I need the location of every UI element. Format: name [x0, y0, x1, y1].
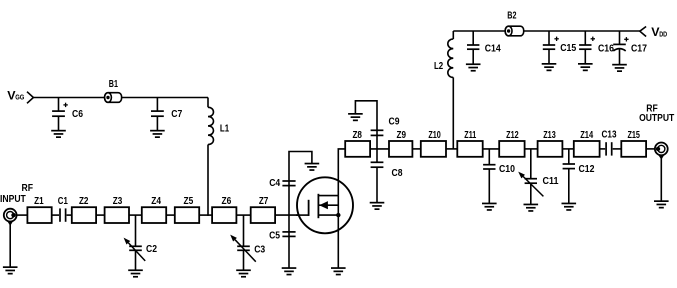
- ground RF output: [654, 201, 669, 208]
- svg-text:C17: C17: [631, 44, 647, 55]
- connector V_DD chevron: [640, 27, 646, 37]
- label Z8: [352, 130, 362, 141]
- variable capacitor C3: [230, 215, 256, 270]
- svg-text:C11: C11: [543, 176, 559, 187]
- svg-text:OUTPUT: OUTPUT: [639, 113, 674, 124]
- connector V_GG chevron: [27, 92, 33, 104]
- svg-text:C1: C1: [58, 196, 68, 207]
- svg-text:Z3: Z3: [113, 196, 123, 207]
- label C11: [543, 176, 559, 187]
- svg-text:Z13: Z13: [543, 130, 556, 141]
- MOSFET Q1 drain stub: [318, 195, 338, 197]
- MOSFET Q1 body circle: [297, 177, 353, 233]
- label C2: [146, 244, 157, 255]
- label B1: [109, 79, 118, 90]
- svg-text:C12: C12: [579, 164, 595, 175]
- svg-text:B2: B2: [507, 11, 516, 22]
- capacitor C5: [282, 215, 295, 268]
- ground C9: [348, 114, 363, 121]
- wire Z7 to gate: [275, 214, 309, 216]
- capacitor C12: [563, 149, 575, 204]
- wire Z3-Z4: [129, 214, 142, 216]
- wire Z11-Z12 node C10: [483, 148, 500, 150]
- transmission line Z1: [27, 207, 51, 223]
- inductor L1: [208, 98, 213, 216]
- ferrite bead B2: [505, 26, 524, 36]
- wire Z14-C13: [600, 148, 606, 150]
- transmission line Z4: [142, 207, 166, 223]
- svg-text:C10: C10: [499, 164, 515, 175]
- svg-text:Z9: Z9: [397, 130, 407, 141]
- label Z9: [397, 130, 407, 141]
- wire Z4-Z5: [166, 214, 175, 216]
- label Z10: [428, 130, 441, 141]
- wire Z15 to output connector: [646, 148, 655, 150]
- ground C7: [150, 131, 165, 138]
- wire Z6-Z7 node C3: [236, 214, 250, 216]
- transmission line Z11: [457, 141, 482, 157]
- label Z4: [151, 196, 161, 207]
- ground C17: [612, 65, 627, 72]
- wire C13-Z15: [613, 148, 622, 150]
- svg-text:C4: C4: [269, 178, 280, 189]
- transmission line Z5: [175, 207, 199, 223]
- svg-text:C13: C13: [602, 130, 617, 141]
- capacitor C8: [371, 162, 384, 202]
- label Z5: [184, 196, 194, 207]
- capacitor C4: [282, 181, 295, 215]
- ground C2: [128, 270, 143, 277]
- svg-text:GG: GG: [15, 93, 24, 102]
- transmission line Z12: [499, 141, 524, 157]
- wire input connector to Z1: [17, 214, 28, 216]
- wire C4 to ground: [289, 152, 312, 182]
- ground C6: [51, 131, 66, 138]
- wire C1-Z2: [67, 214, 72, 216]
- transmission line Z3: [105, 207, 129, 223]
- svg-text:C6: C6: [72, 109, 83, 120]
- ground C11: [524, 204, 539, 211]
- wire Z5-Z6 node L1: [199, 214, 212, 216]
- svg-text:L1: L1: [220, 124, 229, 135]
- capacitor C10: [483, 149, 495, 204]
- RF output connector: [655, 143, 668, 160]
- svg-text:DD: DD: [659, 29, 667, 38]
- svg-text:Z12: Z12: [506, 130, 519, 141]
- wire C9 to ground: [355, 101, 377, 131]
- wire Z8-Z9 node C9 C8: [370, 148, 389, 150]
- label C6: [72, 109, 83, 120]
- ground C15: [542, 64, 557, 71]
- MOSFET Q1 gate bar: [308, 200, 310, 216]
- capacitor C6: [52, 98, 68, 131]
- ground C5: [282, 268, 297, 275]
- net label V_GG: [7, 89, 24, 103]
- capacitor C15: [543, 31, 559, 64]
- svg-text:B1: B1: [109, 79, 118, 90]
- wire input connector ground lead: [9, 222, 11, 267]
- capacitor C1: [60, 208, 66, 221]
- svg-text:C16: C16: [598, 44, 614, 55]
- label C15: [560, 43, 576, 54]
- svg-text:Z2: Z2: [79, 196, 89, 207]
- label RF OUTPUT: [639, 104, 674, 124]
- label Z6: [222, 196, 232, 207]
- svg-text:Z14: Z14: [580, 130, 593, 141]
- wire output connector ground lead: [660, 156, 662, 202]
- label Z12: [506, 130, 519, 141]
- wire Z1-C1: [52, 214, 59, 216]
- label B2: [507, 11, 516, 22]
- svg-text:Z5: Z5: [184, 196, 194, 207]
- label C8: [392, 168, 403, 179]
- label Z7: [259, 196, 269, 207]
- variable capacitor C2: [124, 215, 146, 270]
- svg-text:C7: C7: [171, 109, 182, 120]
- svg-text:C9: C9: [389, 116, 400, 127]
- label C4: [269, 178, 280, 189]
- capacitor C9: [371, 130, 384, 162]
- transmission line Z7: [251, 207, 275, 223]
- capacitor C17 electrolytic: [613, 31, 628, 65]
- svg-text:C15: C15: [560, 43, 576, 54]
- ground C8: [370, 203, 385, 210]
- label C10: [499, 164, 515, 175]
- svg-text:Z7: Z7: [259, 196, 269, 207]
- ground C16: [578, 64, 593, 71]
- wire Z9-Z10: [412, 148, 420, 150]
- MOSFET Q1 gate lead: [296, 214, 309, 216]
- capacitor C14: [467, 31, 479, 64]
- label Z3: [113, 196, 123, 207]
- svg-text:Z8: Z8: [352, 130, 362, 141]
- net label V_DD: [651, 25, 667, 39]
- label L1: [220, 124, 229, 135]
- transmission line Z10: [421, 141, 446, 157]
- transmission line Z14: [574, 141, 600, 157]
- label Z14: [580, 130, 593, 141]
- ground C3: [236, 270, 251, 277]
- capacitor C7: [151, 98, 164, 131]
- wire drain to Z8: [338, 149, 345, 196]
- wire Z2-Z3: [96, 214, 105, 216]
- ground C10: [482, 203, 497, 210]
- svg-text:INPUT: INPUT: [0, 194, 26, 205]
- svg-text:C2: C2: [146, 244, 157, 255]
- label C3: [254, 245, 265, 256]
- ground C14: [466, 64, 481, 71]
- svg-text:Z6: Z6: [222, 196, 232, 207]
- ferrite bead B1: [105, 93, 122, 103]
- wire source to ground: [337, 215, 339, 268]
- ground C4: [305, 164, 320, 171]
- MOSFET Q1 source junction dot: [336, 213, 340, 217]
- label C12: [579, 164, 595, 175]
- MOSFET Q1 channel bar: [317, 194, 319, 218]
- ground Q1 source: [331, 268, 346, 275]
- label Z11: [464, 130, 476, 141]
- variable capacitor C11: [518, 149, 543, 205]
- ground RF input: [3, 267, 18, 274]
- svg-text:C8: C8: [392, 168, 403, 179]
- inductor L2: [448, 31, 453, 149]
- svg-text:Z1: Z1: [34, 196, 44, 207]
- transmission line Z6: [212, 207, 236, 223]
- svg-text:RF: RF: [22, 183, 34, 194]
- svg-text:C14: C14: [485, 44, 501, 55]
- label Z13: [543, 130, 556, 141]
- wire Z12-Z13 node C11: [525, 148, 538, 150]
- wire V_GG rail: [33, 97, 208, 99]
- svg-text:Z15: Z15: [627, 130, 640, 141]
- wire Z10-Z11 node L2: [446, 148, 457, 150]
- label Z15: [627, 130, 640, 141]
- RF input connector: [4, 209, 17, 226]
- label Z2: [79, 196, 89, 207]
- MOSFET Q1 drain-source bus: [337, 196, 339, 216]
- MOSFET Q1 source stub: [318, 214, 338, 216]
- MOSFET Q1 body stub with arrow: [318, 201, 338, 209]
- transmission line Z15: [621, 141, 646, 157]
- svg-text:L2: L2: [434, 61, 443, 72]
- svg-text:Z11: Z11: [464, 130, 476, 141]
- svg-text:Z4: Z4: [151, 196, 161, 207]
- label C13: [602, 130, 617, 141]
- ground C12: [562, 203, 577, 210]
- transmission line Z9: [389, 141, 412, 157]
- capacitor C13: [606, 142, 612, 155]
- capacitor C16: [579, 31, 595, 64]
- label C14: [485, 44, 501, 55]
- label C5: [269, 231, 280, 242]
- label C17: [631, 44, 647, 55]
- svg-text:Z10: Z10: [428, 130, 441, 141]
- label C16: [598, 44, 614, 55]
- svg-text:C3: C3: [254, 245, 265, 256]
- label C7: [171, 109, 182, 120]
- label Z1: [34, 196, 44, 207]
- label C9: [389, 116, 400, 127]
- svg-text:C5: C5: [269, 231, 280, 242]
- label C1: [58, 196, 68, 207]
- transmission line Z8: [345, 141, 370, 157]
- wire V_DD rail: [453, 30, 640, 32]
- transmission line Z2: [72, 207, 96, 223]
- label RF INPUT: [0, 183, 33, 205]
- transmission line Z13: [538, 141, 563, 157]
- label L2: [434, 61, 443, 72]
- wire Z13-Z14 node C12: [562, 148, 573, 150]
